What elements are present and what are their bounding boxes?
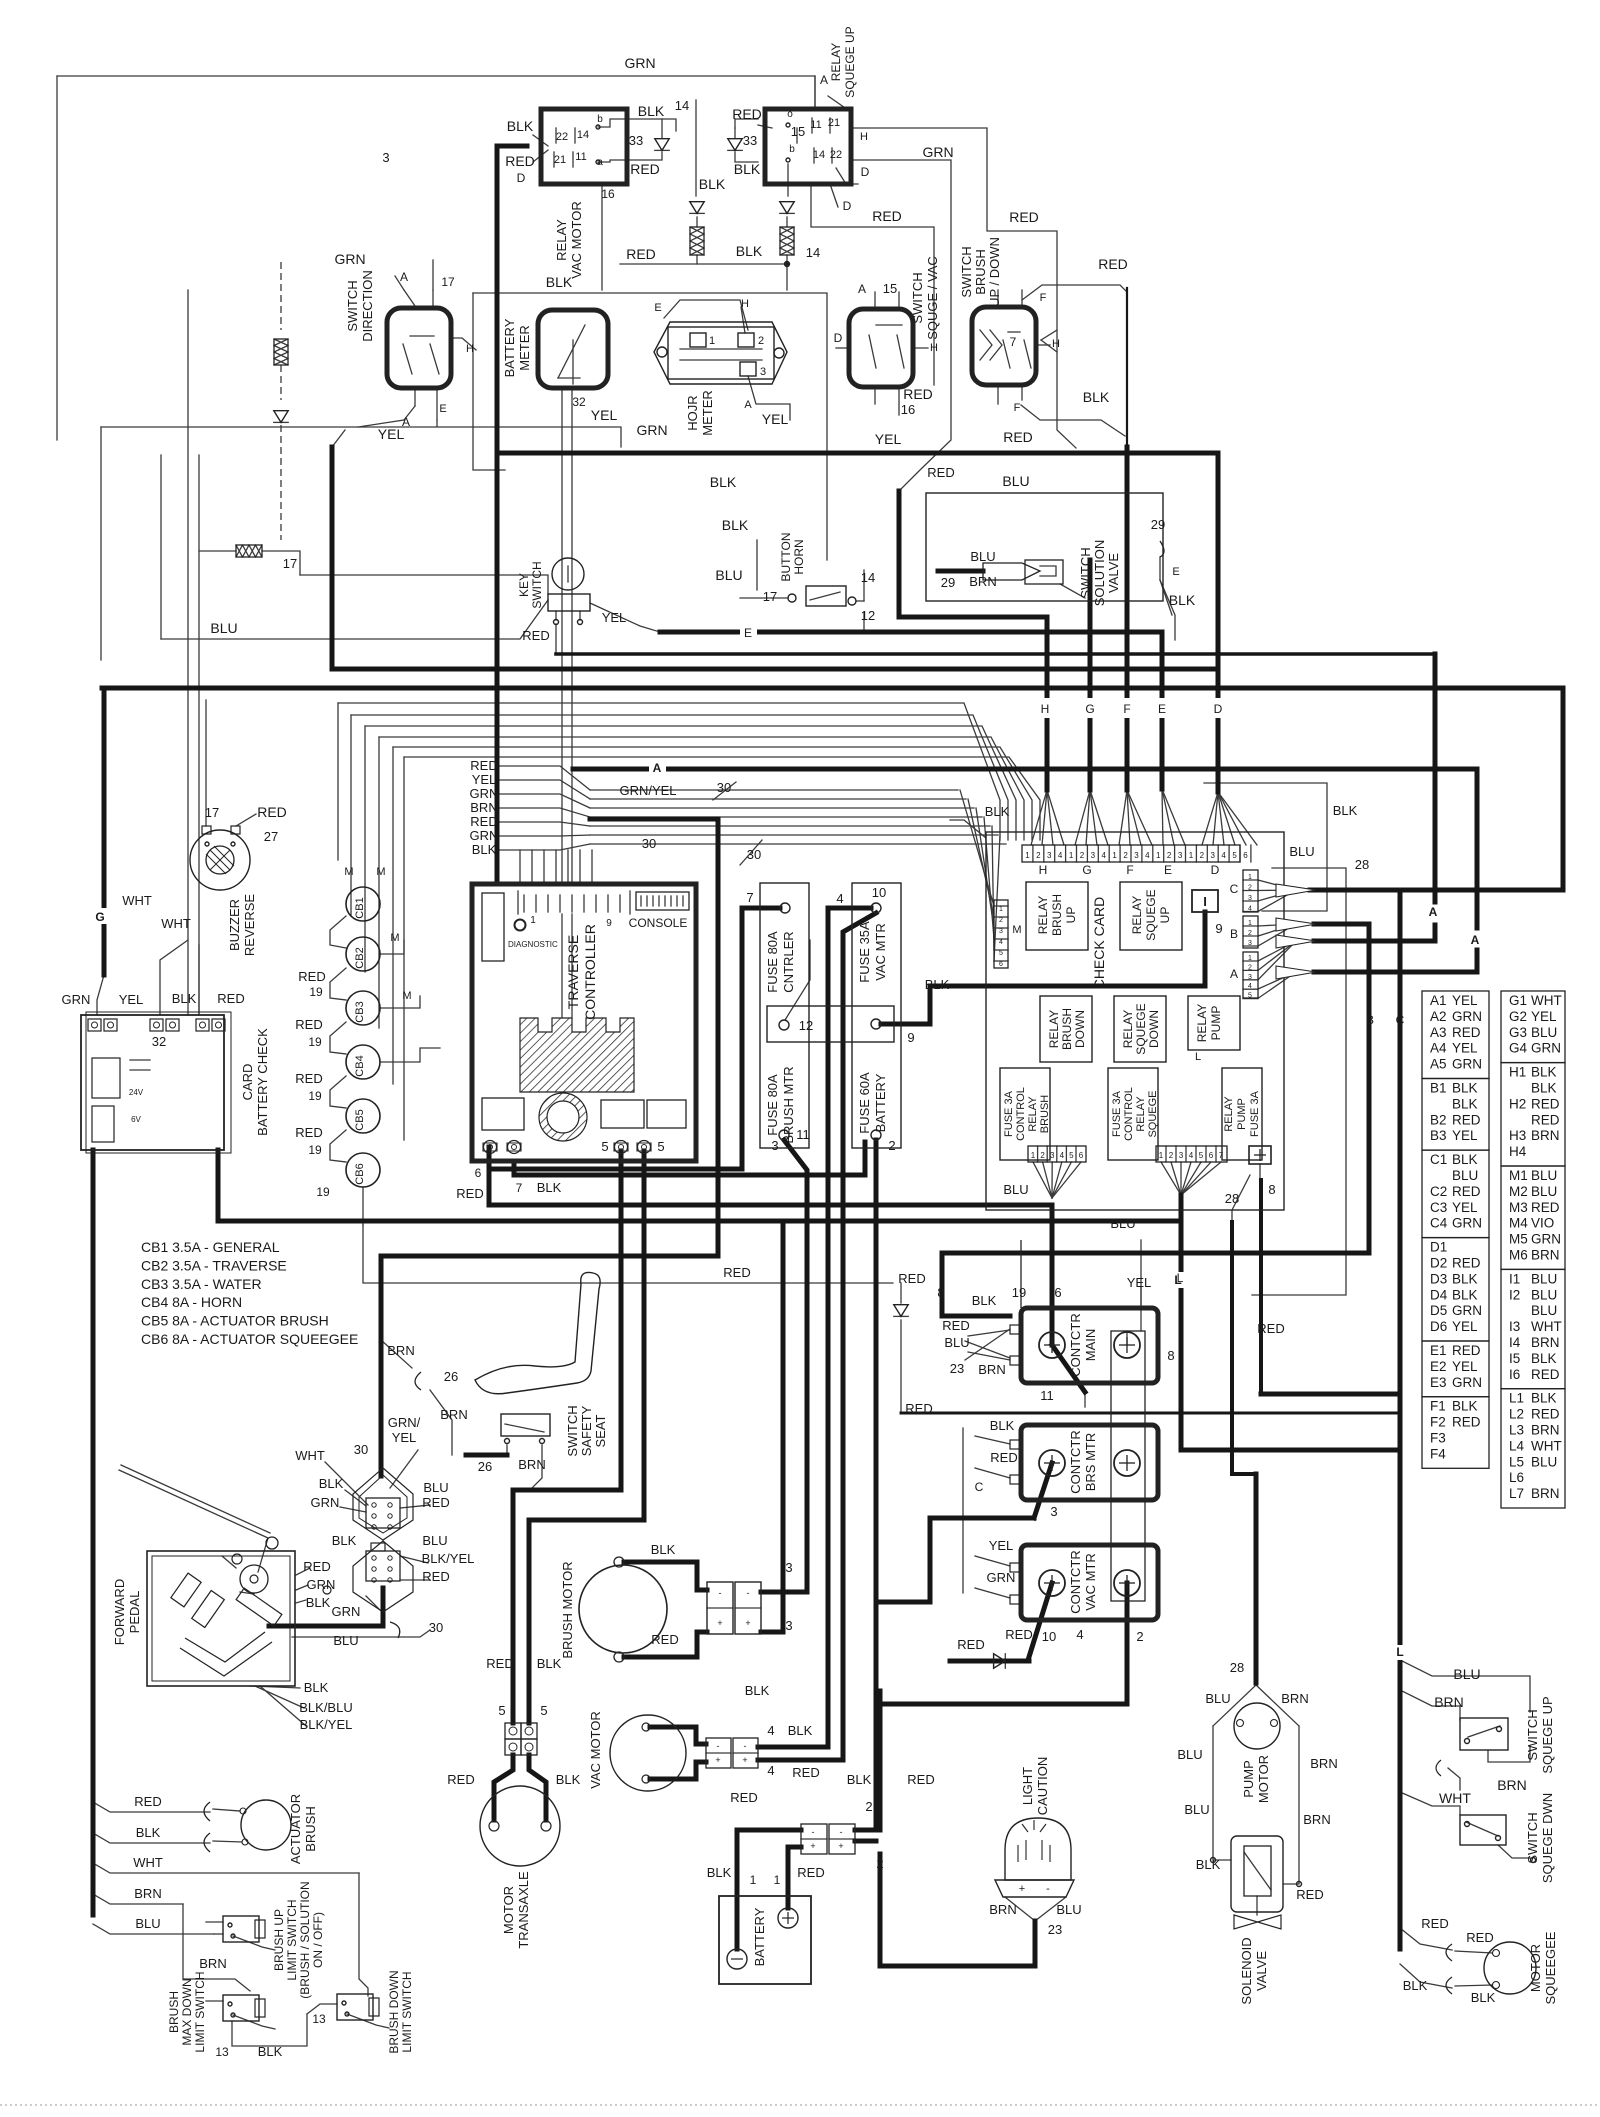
svg-text:FUSE 3A: FUSE 3A [1249, 1090, 1261, 1137]
svg-text:RED: RED [630, 161, 660, 177]
svg-text:BRS MTR: BRS MTR [1083, 1433, 1098, 1492]
svg-text:BRUSH MOTOR: BRUSH MOTOR [560, 1561, 575, 1658]
svg-text:SQUEGE: SQUEGE [1134, 1003, 1148, 1054]
svg-text:RED: RED [505, 153, 535, 169]
svg-text:5: 5 [498, 1703, 505, 1718]
svg-text:RED: RED [1452, 1343, 1481, 1358]
svg-text:RED: RED [1009, 209, 1039, 225]
svg-text:BLK: BLK [745, 1683, 770, 1698]
svg-text:YEL: YEL [1452, 1128, 1478, 1143]
svg-text:BRN: BRN [134, 1886, 161, 1901]
svg-text:3: 3 [1050, 1504, 1057, 1519]
svg-text:A: A [1230, 967, 1238, 981]
svg-text:YEL: YEL [989, 1538, 1014, 1553]
svg-text:RELAY: RELAY [1135, 1096, 1147, 1132]
svg-text:M: M [376, 866, 385, 878]
svg-text:SQUEEGEE: SQUEEGEE [1543, 1931, 1558, 2004]
svg-text:b: b [597, 114, 603, 125]
svg-text:FUSE 60A: FUSE 60A [857, 1072, 872, 1134]
svg-text:RED: RED [723, 1265, 750, 1280]
svg-text:5: 5 [540, 1703, 547, 1718]
svg-text:BRUSH: BRUSH [303, 1806, 318, 1852]
svg-text:C2: C2 [1430, 1184, 1447, 1199]
svg-text:PUMP: PUMP [1236, 1098, 1248, 1130]
svg-text:PUMP: PUMP [1209, 1006, 1223, 1041]
svg-text:29: 29 [1151, 517, 1165, 532]
svg-text:RED: RED [486, 1656, 513, 1671]
svg-text:SWITCH: SWITCH [1525, 1709, 1540, 1760]
svg-text:1: 1 [1248, 955, 1252, 962]
svg-text:L2: L2 [1509, 1407, 1524, 1422]
svg-text:G3: G3 [1509, 1025, 1527, 1040]
svg-text:16: 16 [901, 402, 915, 417]
svg-text:9: 9 [606, 918, 612, 929]
svg-text:M: M [1012, 924, 1021, 936]
svg-text:BLK: BLK [1403, 1978, 1428, 1993]
svg-text:C: C [1396, 1013, 1405, 1027]
svg-text:F: F [1123, 702, 1130, 716]
svg-text:BLK: BLK [319, 1476, 344, 1491]
svg-text:FUSE 80A: FUSE 80A [765, 1074, 780, 1136]
svg-text:1: 1 [1159, 1151, 1164, 1160]
svg-text:BLK: BLK [1531, 1391, 1557, 1406]
svg-text:30: 30 [354, 1442, 368, 1457]
svg-text:GRN/YEL: GRN/YEL [619, 783, 676, 798]
svg-text:CB2 3.5A - TRAVERSE: CB2 3.5A - TRAVERSE [141, 1257, 287, 1273]
svg-text:BLK: BLK [1169, 592, 1196, 608]
svg-text:BATTERY: BATTERY [752, 1907, 767, 1966]
svg-text:4: 4 [1076, 1627, 1083, 1642]
svg-text:BLU: BLU [1452, 1168, 1478, 1183]
svg-text:VAC MOTOR: VAC MOTOR [588, 1711, 603, 1789]
svg-text:H4: H4 [1509, 1144, 1527, 1159]
svg-text:YEL: YEL [1452, 1041, 1478, 1056]
svg-text:13: 13 [215, 2045, 229, 2059]
svg-text:3: 3 [1248, 974, 1252, 981]
svg-text:BLU: BLU [970, 549, 995, 564]
svg-text:E3: E3 [1430, 1375, 1447, 1390]
svg-text:3: 3 [1050, 1151, 1055, 1160]
svg-text:RED: RED [905, 1401, 932, 1416]
svg-text:BLK: BLK [332, 1533, 357, 1548]
svg-text:RED: RED [942, 1318, 969, 1333]
svg-text:BLU: BLU [1531, 1454, 1557, 1469]
svg-text:F: F [1126, 863, 1133, 877]
svg-text:DOWN: DOWN [1147, 1010, 1161, 1048]
svg-text:BLK: BLK [472, 842, 497, 857]
svg-text:RED: RED [927, 465, 954, 480]
svg-text:4: 4 [1060, 1151, 1065, 1160]
svg-text:BUTTON: BUTTON [779, 532, 793, 581]
svg-text:BLK: BLK [736, 243, 763, 259]
svg-text:4: 4 [1248, 983, 1252, 990]
svg-text:1: 1 [750, 1873, 757, 1887]
svg-text:D: D [834, 331, 843, 345]
svg-text:L6: L6 [1509, 1470, 1524, 1485]
svg-text:H: H [741, 298, 749, 310]
svg-text:32: 32 [572, 395, 586, 409]
svg-text:BLK: BLK [707, 1865, 732, 1880]
svg-text:CAUTION: CAUTION [1035, 1757, 1050, 1816]
svg-text:GRN: GRN [311, 1495, 340, 1510]
svg-text:RED: RED [134, 1794, 161, 1809]
svg-text:VAC MTR: VAC MTR [873, 923, 888, 981]
svg-text:CB6 8A - ACTUATOR SQUEEGEE: CB6 8A - ACTUATOR SQUEEGEE [141, 1331, 358, 1347]
svg-text:BLK: BLK [710, 474, 737, 490]
svg-text:1: 1 [530, 915, 536, 926]
svg-text:BRN: BRN [199, 1956, 226, 1971]
svg-text:A2: A2 [1430, 1009, 1447, 1024]
svg-text:(BRUSH / SOLUTION: (BRUSH / SOLUTION [298, 1881, 312, 1998]
svg-text:GRN/: GRN/ [388, 1415, 421, 1430]
svg-text:2: 2 [1200, 851, 1205, 860]
svg-text:WHT: WHT [1531, 1438, 1562, 1453]
svg-text:MOTOR: MOTOR [501, 1886, 516, 1934]
svg-text:RED: RED [303, 1559, 330, 1574]
svg-text:E: E [439, 403, 446, 415]
svg-text:BRUSH: BRUSH [167, 1991, 181, 2033]
svg-text:21: 21 [828, 117, 840, 129]
svg-text:M4: M4 [1509, 1216, 1528, 1231]
svg-text:A: A [1429, 905, 1438, 919]
svg-text:BRN: BRN [1497, 1777, 1527, 1793]
svg-text:CONSOLE: CONSOLE [629, 916, 688, 930]
svg-text:GRN: GRN [1452, 1375, 1482, 1390]
svg-text:METER: METER [517, 325, 532, 371]
svg-text:b: b [789, 144, 795, 155]
svg-text:BLU: BLU [333, 1633, 358, 1648]
svg-text:30: 30 [717, 780, 731, 795]
svg-text:BLK: BLK [306, 1595, 331, 1610]
svg-text:17: 17 [283, 556, 297, 571]
svg-text:RED: RED [1421, 1916, 1448, 1931]
svg-text:1: 1 [999, 906, 1003, 913]
svg-text:FUSE 80A: FUSE 80A [765, 931, 780, 993]
svg-text:B2: B2 [1430, 1112, 1447, 1127]
svg-text:YEL: YEL [119, 992, 144, 1007]
svg-text:7: 7 [746, 890, 753, 905]
svg-text:REVERSE: REVERSE [242, 894, 257, 956]
svg-text:16: 16 [601, 187, 615, 201]
svg-text:3: 3 [1178, 851, 1183, 860]
svg-text:30: 30 [642, 836, 656, 851]
svg-text:6: 6 [1054, 1285, 1061, 1300]
svg-text:I6: I6 [1509, 1367, 1520, 1382]
svg-text:A: A [858, 282, 866, 296]
svg-text:+: + [810, 1841, 815, 1851]
svg-text:RED: RED [1296, 1887, 1323, 1902]
svg-text:BLK: BLK [1531, 1351, 1557, 1366]
svg-text:SQUEGE UP: SQUEGE UP [843, 26, 857, 97]
svg-text:SAFETY: SAFETY [579, 1405, 594, 1456]
svg-text:C4: C4 [1430, 1216, 1448, 1231]
svg-text:11: 11 [1040, 1388, 1054, 1403]
svg-text:BLK: BLK [1452, 1081, 1478, 1096]
svg-text:BLU: BLU [1289, 844, 1314, 859]
svg-text:M5: M5 [1509, 1232, 1528, 1247]
svg-text:RED: RED [422, 1569, 449, 1584]
svg-text:GRN: GRN [922, 144, 953, 160]
svg-text:5: 5 [1248, 993, 1252, 1000]
svg-text:L7: L7 [1509, 1486, 1524, 1501]
svg-text:CB4: CB4 [354, 1055, 366, 1076]
svg-text:8: 8 [1268, 1182, 1275, 1197]
svg-text:22: 22 [830, 149, 842, 161]
svg-text:BRN: BRN [969, 574, 996, 589]
svg-text:CB3: CB3 [354, 1001, 366, 1022]
svg-text:RED: RED [1531, 1112, 1560, 1127]
svg-text:VALVE: VALVE [1106, 553, 1121, 593]
svg-text:PEDAL: PEDAL [127, 1591, 142, 1634]
svg-text:CB3 3.5A - WATER: CB3 3.5A - WATER [141, 1276, 262, 1292]
svg-text:BLK: BLK [546, 274, 573, 290]
svg-text:28: 28 [1230, 1660, 1244, 1675]
svg-text:GRN: GRN [334, 251, 365, 267]
svg-text:BRN: BRN [1310, 1756, 1337, 1771]
svg-text:2: 2 [1036, 851, 1041, 860]
svg-text:14: 14 [806, 245, 820, 260]
svg-text:3: 3 [1091, 851, 1096, 860]
svg-text:D2: D2 [1430, 1256, 1447, 1271]
svg-text:o: o [787, 109, 793, 120]
svg-text:BRUSH: BRUSH [1060, 1008, 1074, 1050]
svg-text:RELAY: RELAY [829, 43, 843, 81]
svg-text:29: 29 [941, 575, 955, 590]
svg-text:GRN: GRN [1452, 1216, 1482, 1231]
svg-text:CB1 3.5A - GENERAL: CB1 3.5A - GENERAL [141, 1239, 280, 1255]
svg-text:YEL: YEL [591, 407, 618, 423]
svg-text:BLK/BLU: BLK/BLU [299, 1700, 352, 1715]
svg-text:RED: RED [1452, 1256, 1481, 1271]
svg-text:+: + [745, 1618, 750, 1628]
svg-text:11: 11 [575, 151, 586, 163]
svg-text:BLK: BLK [985, 804, 1010, 819]
svg-text:6: 6 [999, 961, 1003, 968]
svg-text:M: M [344, 866, 353, 878]
svg-text:RED: RED [1452, 1025, 1481, 1040]
svg-text:3: 3 [1134, 851, 1139, 860]
svg-text:CNTRLER: CNTRLER [781, 931, 796, 992]
svg-text:RED: RED [1531, 1407, 1560, 1422]
svg-text:SWITCH: SWITCH [910, 272, 925, 323]
svg-text:GRN: GRN [987, 1570, 1016, 1585]
svg-text:24V: 24V [129, 1088, 144, 1097]
svg-text:1: 1 [1069, 851, 1074, 860]
svg-text:5: 5 [1232, 851, 1237, 860]
svg-text:BLK: BLK [734, 161, 761, 177]
svg-text:WHT: WHT [122, 893, 152, 908]
svg-text:WHT: WHT [295, 1448, 325, 1463]
svg-text:7: 7 [516, 1181, 523, 1195]
svg-text:FORWARD: FORWARD [112, 1579, 127, 1645]
svg-text:8: 8 [937, 1285, 944, 1300]
svg-text:2: 2 [876, 1856, 883, 1871]
svg-text:BLK: BLK [1196, 1857, 1221, 1872]
svg-text:SWITCH: SWITCH [565, 1405, 580, 1456]
svg-text:RED: RED [1531, 1096, 1560, 1111]
svg-text:SQUEGE: SQUEGE [1144, 889, 1158, 940]
svg-text:G: G [1082, 863, 1091, 877]
svg-text:BLU: BLU [1056, 1902, 1081, 1917]
svg-text:4: 4 [836, 891, 843, 906]
svg-text:3: 3 [785, 1618, 792, 1633]
svg-text:BLK: BLK [1452, 1152, 1478, 1167]
svg-text:5: 5 [657, 1139, 664, 1154]
svg-text:E2: E2 [1430, 1359, 1447, 1374]
svg-text:RED: RED [1452, 1112, 1481, 1127]
svg-text:2: 2 [1123, 851, 1128, 860]
svg-text:4: 4 [767, 1723, 774, 1738]
svg-text:15: 15 [791, 124, 805, 139]
svg-text:MOTOR: MOTOR [1256, 1755, 1271, 1803]
svg-text:BLU: BLU [1184, 1802, 1209, 1817]
svg-text:+: + [717, 1618, 722, 1628]
svg-text:BLK: BLK [556, 1772, 581, 1787]
svg-text:PUMP: PUMP [1241, 1760, 1256, 1798]
svg-text:5: 5 [1199, 1151, 1204, 1160]
svg-text:BRN: BRN [978, 1362, 1005, 1377]
svg-text:11: 11 [796, 1127, 810, 1142]
svg-text:I1: I1 [1509, 1271, 1520, 1286]
svg-text:13: 13 [312, 2012, 326, 2026]
svg-text:H: H [466, 343, 474, 355]
svg-text:RED: RED [898, 1271, 925, 1286]
svg-text:BLK: BLK [1452, 1399, 1478, 1414]
svg-text:CONTROL: CONTROL [1015, 1087, 1027, 1141]
svg-text:RED: RED [257, 804, 287, 820]
svg-text:GRN: GRN [1452, 1303, 1482, 1318]
svg-text:DIRECTION: DIRECTION [360, 270, 375, 342]
svg-text:E: E [654, 302, 661, 314]
svg-text:RELAY: RELAY [1036, 896, 1050, 934]
svg-text:RED: RED [1257, 1321, 1284, 1336]
svg-text:VAC MTR: VAC MTR [1083, 1553, 1098, 1611]
svg-text:RELAY: RELAY [1047, 1010, 1061, 1048]
svg-text:SWITCH: SWITCH [1078, 547, 1093, 598]
svg-text:A4: A4 [1430, 1041, 1447, 1056]
svg-text:26: 26 [444, 1369, 458, 1384]
svg-text:H: H [860, 131, 868, 143]
svg-text:SWITCH: SWITCH [1525, 1812, 1540, 1863]
svg-text:LIMIT SWITCH: LIMIT SWITCH [400, 1971, 414, 2052]
svg-text:E: E [1172, 566, 1179, 578]
svg-text:BLK: BLK [1452, 1096, 1478, 1111]
svg-text:G: G [1085, 702, 1094, 716]
svg-text:BLU: BLU [1177, 1747, 1202, 1762]
svg-text:2: 2 [865, 1799, 872, 1814]
svg-text:BRN: BRN [1531, 1128, 1560, 1143]
svg-text:H3: H3 [1509, 1128, 1526, 1143]
svg-text:4: 4 [1102, 851, 1107, 860]
svg-text:B1: B1 [1430, 1081, 1447, 1096]
svg-text:I: I [1203, 894, 1207, 909]
svg-text:2: 2 [999, 917, 1003, 924]
svg-text:RED: RED [792, 1765, 819, 1780]
svg-text:19: 19 [316, 1185, 330, 1199]
svg-text:15: 15 [883, 281, 897, 296]
svg-text:BLK: BLK [1452, 1271, 1478, 1286]
svg-text:RELAY: RELAY [1195, 1004, 1209, 1042]
svg-text:RED: RED [990, 1450, 1017, 1465]
svg-text:RED: RED [651, 1632, 678, 1647]
svg-text:MAIN: MAIN [1083, 1329, 1098, 1362]
svg-text:FUSE 3A: FUSE 3A [1003, 1090, 1015, 1137]
svg-text:BRN: BRN [518, 1457, 545, 1472]
svg-text:2: 2 [1169, 1151, 1174, 1160]
svg-text:GRN: GRN [1452, 1009, 1482, 1024]
svg-text:BLK: BLK [258, 2044, 283, 2059]
svg-text:UP: UP [1064, 907, 1078, 924]
svg-text:RED: RED [295, 1071, 322, 1086]
svg-text:30: 30 [429, 1620, 443, 1635]
svg-text:17: 17 [441, 275, 455, 289]
svg-text:BLK/YEL: BLK/YEL [300, 1717, 353, 1732]
svg-text:GRN: GRN [1531, 1232, 1561, 1247]
svg-text:BLU: BLU [1453, 1666, 1480, 1682]
svg-text:2: 2 [1167, 851, 1172, 860]
svg-text:BLK: BLK [651, 1542, 676, 1557]
svg-text:GRN: GRN [624, 55, 655, 71]
svg-text:BRN: BRN [387, 1343, 414, 1358]
svg-text:3: 3 [1248, 895, 1252, 902]
svg-text:KEY: KEY [517, 573, 531, 597]
svg-text:RELAY: RELAY [1121, 1010, 1135, 1048]
svg-text:23: 23 [1048, 1922, 1062, 1937]
svg-text:F2: F2 [1430, 1415, 1446, 1430]
svg-text:G: G [95, 910, 104, 924]
svg-text:BLU: BLU [1531, 1287, 1557, 1302]
svg-text:E: E [1164, 863, 1172, 877]
svg-text:BLK: BLK [699, 176, 726, 192]
svg-text:RED: RED [957, 1637, 984, 1652]
svg-text:4: 4 [1248, 906, 1252, 913]
svg-text:H1: H1 [1509, 1065, 1526, 1080]
svg-text:M6: M6 [1509, 1248, 1528, 1263]
svg-text:BLU: BLU [135, 1916, 160, 1931]
svg-text:BLK: BLK [1531, 1065, 1557, 1080]
svg-text:YEL: YEL [1531, 1009, 1557, 1024]
svg-text:RED: RED [295, 1125, 322, 1140]
svg-text:BRN: BRN [1531, 1335, 1560, 1350]
svg-text:A5: A5 [1430, 1057, 1447, 1072]
svg-text:MOTOR: MOTOR [1528, 1944, 1543, 1992]
svg-text:RED: RED [903, 386, 933, 402]
svg-text:RED: RED [626, 246, 656, 262]
svg-text:BRN: BRN [1281, 1691, 1308, 1706]
svg-text:19: 19 [308, 1089, 322, 1103]
svg-text:BRN: BRN [1531, 1423, 1560, 1438]
svg-text:SQUEGE: SQUEGE [1147, 1090, 1159, 1137]
svg-text:SQUGE / VAC: SQUGE / VAC [925, 256, 940, 340]
svg-text:BLK: BLK [1083, 389, 1110, 405]
svg-text:1: 1 [1025, 851, 1030, 860]
svg-text:A1: A1 [1430, 993, 1447, 1008]
svg-text:C: C [1230, 882, 1239, 896]
svg-text:LIMIT SWITCH: LIMIT SWITCH [285, 1899, 299, 1980]
svg-text:M2: M2 [1509, 1184, 1528, 1199]
svg-text:2: 2 [1136, 1629, 1143, 1644]
svg-text:1: 1 [1189, 851, 1194, 860]
svg-text:WHT: WHT [161, 916, 191, 931]
svg-text:4: 4 [999, 939, 1003, 946]
svg-text:30: 30 [747, 847, 761, 862]
svg-text:A: A [744, 399, 752, 411]
svg-text:BRN: BRN [1531, 1248, 1560, 1263]
svg-text:33: 33 [629, 133, 643, 148]
svg-text:F3: F3 [1430, 1431, 1446, 1446]
svg-text:SWITCH: SWITCH [345, 280, 360, 331]
svg-text:BLK: BLK [507, 118, 534, 134]
